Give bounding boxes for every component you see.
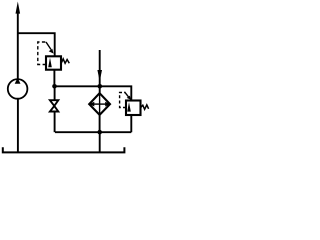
wire mid rail node A to node B — [55, 85, 100, 87]
heat exchanger HX1 through line — [99, 93, 101, 115]
shutoff valve V1 (two triangles) — [50, 100, 58, 106]
wire pump riser — [17, 9, 19, 80]
wire pump to tank — [17, 99, 19, 153]
wire shutoff valve V1 to bottom loop — [54, 112, 56, 133]
relief valve U1 pilot dashed line — [38, 42, 46, 65]
wire heat exchanger to node C — [99, 115, 101, 132]
pump P1 circle — [8, 79, 28, 99]
node A junction dot — [52, 84, 57, 89]
heat exchanger HX1 diamond — [89, 93, 110, 115]
wire relief valve U2 to bottom loop — [130, 115, 132, 132]
wire node B to relief valve U2 — [100, 86, 132, 100]
up arrow (pump outlet flow) — [16, 2, 21, 14]
relief valve U2 internal arrow — [127, 102, 131, 112]
wire bottom loop rail — [55, 131, 131, 133]
relief valve U1 pilot arrow — [46, 42, 51, 50]
heat exchanger HX1 double arrow — [93, 103, 107, 105]
relief valve U2 body — [126, 101, 141, 116]
wire node B to heat exchanger — [99, 86, 101, 93]
wire node C drain to tank — [99, 132, 101, 152]
relief valve U2 spring — [141, 105, 149, 109]
wire top rail — [18, 33, 55, 56]
node C junction dot — [97, 130, 102, 135]
node B junction dot — [98, 84, 103, 89]
relief valve U1 body — [46, 56, 61, 69]
relief valve U2 pilot dashed line — [120, 93, 126, 108]
relief valve U2 pilot arrow — [125, 92, 130, 98]
wire node A to shutoff valve V1 — [54, 86, 56, 100]
pump P1 direction triangle — [15, 78, 21, 84]
relief valve U1 internal arrow — [48, 58, 52, 68]
wire valve U1 to node A — [53, 70, 55, 87]
down arrow (inlet flow) — [97, 70, 102, 82]
relief valve U1 spring — [61, 59, 69, 64]
tank line — [3, 147, 125, 152]
wire inlet line with down arrow — [99, 50, 101, 86]
